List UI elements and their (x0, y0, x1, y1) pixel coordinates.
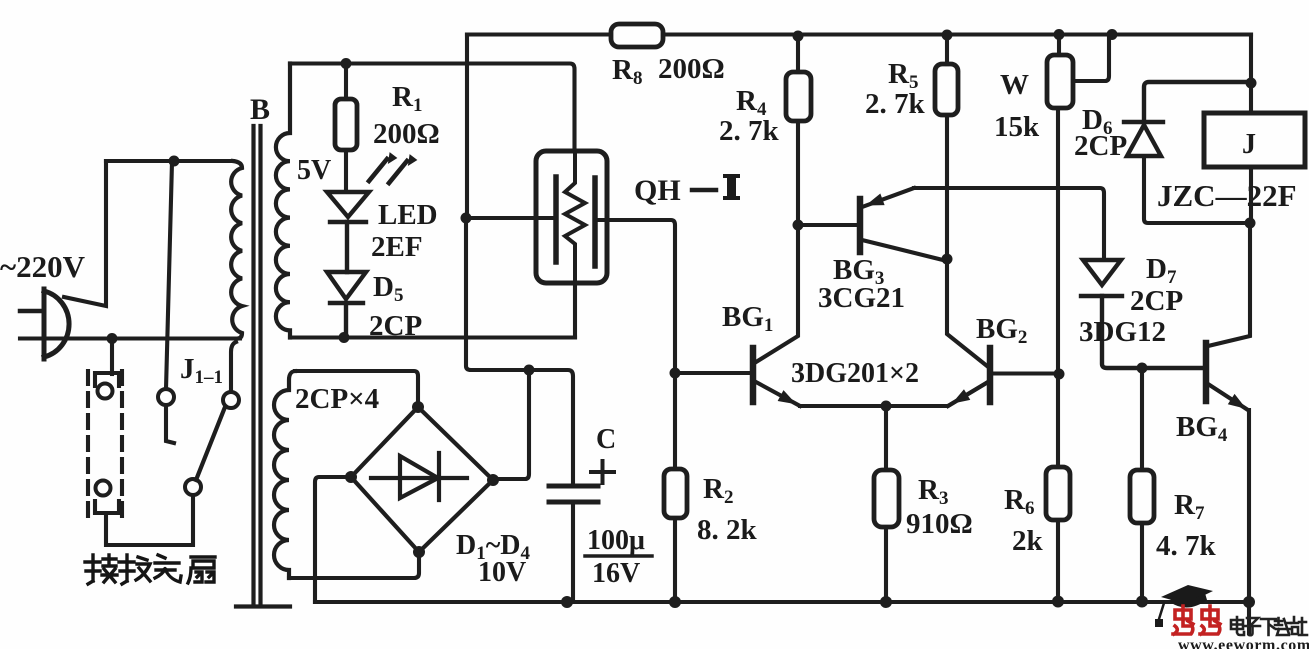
node: R5 / BG3 collector / BG2 collector (942, 254, 953, 265)
wire: capacitor bottom drop (571, 502, 575, 602)
svg-text:5V: 5V (297, 155, 331, 186)
wire: stub below rail at BG4 emitter (1247, 602, 1251, 633)
svg-text:2CP: 2CP (1074, 130, 1127, 162)
wire: V+ left drop from top rail (465, 35, 469, 219)
BG2 emitter with arrow (948, 382, 988, 406)
transformer primary winding (231, 161, 242, 339)
svg-text:15k: 15k (994, 111, 1040, 143)
switch J1-1 pivot contact (185, 479, 201, 495)
resistor R3 (874, 406, 899, 602)
node: relay bottom / D6 anode / BG4 collector (1245, 218, 1256, 229)
node: rail R2 (669, 596, 681, 608)
svg-text:BG2: BG2 (976, 313, 1027, 348)
svg-text:C: C (596, 424, 616, 455)
fan outlet socket (dashed) (88, 371, 122, 516)
svg-text:J: J (1242, 129, 1256, 160)
BG3 collector (862, 240, 947, 261)
wire: 5V return y337 (290, 335, 575, 339)
node: rail R5 tap (942, 30, 953, 41)
svg-text:R8: R8 (612, 54, 642, 89)
wire: plug top to mains rail (64, 161, 106, 306)
QH right electrode plate (592, 178, 598, 266)
wire: QH left electrode to V+ (466, 216, 556, 220)
wire: stub below middle contact (166, 405, 174, 443)
wire: bridge AC2 to 10V winding bottom (289, 552, 419, 578)
gas sensor QH-II body (536, 151, 607, 283)
svg-text:10V: 10V (478, 557, 526, 588)
resistor R8 (611, 24, 663, 47)
wire: switch common drop (166, 162, 172, 389)
svg-text:3DG201×2: 3DG201×2 (791, 358, 919, 389)
svg-text:2. 7k: 2. 7k (719, 115, 780, 147)
node: BG4 base / R7 (1137, 363, 1148, 374)
relay J coil box (1204, 113, 1305, 167)
svg-text:200Ω: 200Ω (373, 118, 440, 150)
transistor BG4 body bar (1203, 343, 1210, 401)
svg-text:www.eeworm.com: www.eeworm.com (1178, 637, 1309, 649)
wire: emitter bus y406 (800, 382, 988, 406)
diode D6 (1124, 82, 1251, 156)
watermark chongchong red characters (1173, 606, 1220, 634)
wire: right contact to transformer feed (231, 342, 236, 392)
diode D5 (327, 272, 366, 338)
svg-text:JZC—22F: JZC—22F (1157, 178, 1297, 213)
node: rail R7 (1136, 596, 1148, 608)
resistor R1 (335, 64, 357, 193)
watermark graduation cap (1155, 585, 1213, 627)
svg-text:910Ω: 910Ω (906, 508, 973, 540)
wire: BG2 base (991, 371, 1059, 375)
wire: BG1 base (675, 371, 750, 375)
node: plug bottom / fan outlet tap (107, 333, 118, 344)
node: bridge left vertex (345, 471, 357, 483)
svg-text:R3: R3 (918, 474, 948, 509)
node: bridge top vertex (412, 401, 424, 413)
svg-text:2CP: 2CP (1130, 285, 1183, 317)
node: bridge right vertex (487, 474, 499, 486)
wire: pivot to fan outlet bottom (106, 495, 193, 545)
transformer 5V secondary winding (276, 64, 290, 338)
BG4 collector (1208, 223, 1250, 346)
svg-text:16V: 16V (592, 558, 640, 589)
BG4 emitter with arrow (1208, 384, 1248, 410)
node: rail BG4 emitter (1243, 596, 1255, 608)
BG1 collector (756, 225, 798, 362)
BG2 collector (947, 259, 987, 366)
svg-text:2. 7k: 2. 7k (865, 88, 926, 120)
transformer 10V secondary winding (274, 371, 295, 578)
svg-text:2k: 2k (1012, 525, 1044, 557)
wire: V+ drop to bridge plus node (466, 218, 526, 370)
node: QH left / V+ (461, 213, 472, 224)
bridge inner diode (371, 453, 467, 500)
bridge rectifier D1-D4 diamond (351, 407, 493, 552)
wire: bridge plus output (493, 370, 529, 479)
wire: BG3 emitter rail y188 to D7 (914, 188, 1104, 260)
wire: plus node to capacitor C top (529, 370, 573, 486)
svg-text:100μ: 100μ (587, 525, 645, 556)
label jie huan qi shan (connect ventilation fan) (85, 555, 215, 584)
wire: BG3 base (798, 223, 857, 227)
node: relay top / D6 cathode (1246, 78, 1257, 89)
svg-text:4. 7k: 4. 7k (1156, 530, 1217, 562)
svg-text:2EF: 2EF (371, 231, 423, 263)
svg-text:B: B (250, 93, 270, 126)
node: BG2 base / W / R6 (1054, 369, 1065, 380)
node: rail R6 (1052, 596, 1064, 608)
svg-text:8. 2k: 8. 2k (697, 514, 758, 546)
plug P1 ~220V (20, 289, 69, 359)
LED 2EF diode (327, 192, 369, 272)
QH heater zigzag (565, 151, 585, 283)
resistor R4 (786, 35, 811, 226)
svg-text:3CG21: 3CG21 (818, 282, 905, 314)
wire: V+ top rail y34 (467, 32, 1251, 36)
wire: fan outlet top drop (110, 339, 114, 375)
BG1 emitter with arrow (756, 382, 800, 406)
watermark dianzi xiazaizhan characters (1231, 617, 1307, 635)
svg-text:R2: R2 (703, 473, 733, 508)
svg-text:R1: R1 (392, 81, 422, 116)
capacitor plus sign (591, 461, 614, 483)
wire: 10V winding top to bridge AC1 (295, 371, 418, 407)
svg-text:200Ω: 200Ω (658, 53, 725, 85)
svg-text:D5: D5 (373, 271, 403, 306)
resistor R5 (935, 35, 958, 260)
node: rail capacitor (561, 596, 573, 608)
resistor R2 (664, 373, 687, 602)
node: rail W wiper tap (1107, 29, 1118, 40)
diode D7 (1081, 260, 1203, 368)
svg-text:~220V: ~220V (0, 249, 86, 284)
switch J1-1 middle contact (158, 389, 174, 405)
svg-text:R7: R7 (1174, 489, 1205, 524)
svg-text:W: W (1000, 69, 1029, 101)
wire: QH heater bottom stub (573, 283, 577, 338)
capacitor C plates (549, 486, 598, 502)
node: QH right / R2 / BG1 base (670, 368, 681, 379)
svg-text:LED: LED (378, 199, 438, 231)
node: rail W tap (1054, 29, 1065, 40)
BG3 emitter with arrow (862, 188, 914, 207)
svg-text:QH: QH (634, 174, 681, 207)
QH left electrode plate (553, 177, 559, 262)
transistor BG3 body bar (857, 199, 864, 252)
wire: mains top rail y160 (106, 159, 233, 163)
node: mains rail / switch tap (169, 156, 180, 167)
node: rail R3 (880, 596, 892, 608)
switch J1-1 right contact (223, 392, 239, 408)
svg-text:BG1: BG1 (722, 301, 773, 336)
LED light arrows (369, 153, 417, 183)
svg-text:3DG12: 3DG12 (1079, 316, 1166, 348)
wire: rail right corner down to relay (1249, 35, 1253, 114)
wire: mains plug bottom feed y338 (20, 336, 240, 340)
svg-text:D7: D7 (1146, 253, 1177, 288)
node: bridge bottom vertex (413, 546, 425, 558)
wire: relay bottom drop (1249, 167, 1253, 223)
transistor BG2 body bar (987, 348, 994, 402)
wire: BG4 emitter drop (1247, 410, 1251, 602)
wire: bridge minus to ground rail (315, 477, 351, 602)
transformer B core (236, 126, 290, 607)
node: R4 / BG1 collector / BG3 base (793, 220, 804, 231)
resistor R7 (1130, 368, 1154, 601)
transistor BG1 body bar (750, 348, 757, 402)
wire: D6 anode run y223 (1144, 156, 1250, 223)
wire: ground bottom rail (315, 600, 1249, 604)
svg-text:J1–1: J1–1 (180, 353, 223, 388)
resistor R6 (1046, 374, 1070, 601)
node: rail R4 tap (793, 31, 804, 42)
wire: 5V rail y63 (290, 64, 575, 152)
node: bridge plus junction (524, 365, 535, 376)
svg-text:BG4: BG4 (1176, 411, 1228, 446)
svg-text:2CP×4: 2CP×4 (295, 383, 379, 415)
node: emitter bus / R3 (881, 401, 892, 412)
switch J1-1 arm (196, 407, 225, 480)
node: D5 bottom (339, 332, 350, 343)
wire: QH right electrode to BG1 base (595, 220, 675, 371)
svg-text:R6: R6 (1004, 484, 1034, 519)
node: R1 top (341, 58, 352, 69)
potentiometer W (1047, 35, 1109, 375)
